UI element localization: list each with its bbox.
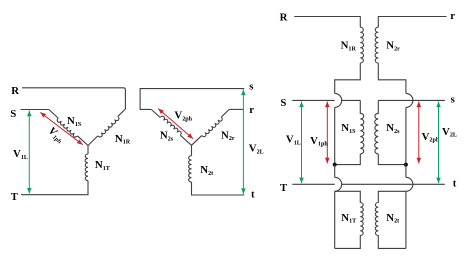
wire T line left (fig3): [292, 183, 334, 185]
hop right over s line (fig3): [406, 93, 413, 107]
label V1L (fig1): [13, 148, 28, 161]
winding N1R coil (fig1): [98, 116, 119, 137]
wire N2r bottom (fig3): [378, 63, 406, 93]
svg-text:V1L: V1L: [13, 148, 28, 161]
svg-text:S: S: [10, 108, 16, 120]
hop right over t line (fig3): [406, 177, 413, 191]
hop left over S line (fig3): [335, 93, 342, 107]
winding N2t coil (fig2): [189, 156, 192, 182]
label N2t (fig3): [386, 212, 399, 225]
svg-text:s: s: [451, 94, 455, 106]
junction dot left (fig3): [333, 163, 337, 167]
wire r line (fig3): [378, 17, 446, 28]
wire s line right (fig3): [378, 99, 445, 101]
svg-text:N2t: N2t: [200, 164, 213, 177]
svg-text:T: T: [11, 191, 19, 203]
wire R diagonal lower to node (fig1): [88, 136, 98, 146]
label V2L (fig3): [442, 126, 457, 139]
label T (fig1): [11, 191, 19, 203]
label t (fig3): [453, 178, 457, 190]
label t (fig2): [251, 188, 255, 200]
hop left over T line (fig3): [335, 177, 342, 191]
wire N2s bottom (fig3): [378, 154, 406, 165]
wire S line middle-left segment (fig3): [342, 99, 361, 101]
label S (fig1): [10, 108, 16, 120]
label N2s (fig2): [160, 130, 174, 143]
label V2ph (fig3): [422, 131, 440, 144]
wire N1R bottom (fig3): [335, 63, 361, 93]
wire t coil to t line (fig2): [192, 182, 245, 195]
svg-text:S: S: [280, 97, 286, 109]
label V2L (fig2): [249, 143, 264, 156]
svg-text:s: s: [249, 81, 253, 93]
svg-text:N1R: N1R: [115, 133, 131, 146]
winding N1R coil (fig3): [360, 27, 363, 63]
winding N2t rect right side (fig3): [405, 191, 407, 248]
svg-text:N2s: N2s: [386, 122, 400, 135]
svg-text:r: r: [450, 10, 455, 22]
wire S line (fig1): [21, 109, 49, 111]
svg-text:R: R: [280, 12, 288, 24]
svg-text:V2L: V2L: [249, 143, 264, 156]
junction dot right (fig3): [404, 163, 408, 167]
label N1R (fig1): [115, 133, 131, 146]
winding N1T coil (fig1): [85, 154, 88, 181]
wire R diagonal upper (fig1): [118, 109, 126, 116]
svg-text:N1R: N1R: [341, 40, 357, 53]
wire N1S bottom (fig3): [335, 154, 361, 165]
wire N2s right side (fig3): [405, 107, 407, 164]
label R (fig1): [11, 85, 19, 97]
wire T coil to T line (fig1): [21, 181, 88, 195]
label V1ph (fig3): [310, 135, 328, 148]
winding N2s coil (fig3): [375, 100, 379, 154]
wire R line (fig3): [294, 17, 360, 28]
winding N2r coil (fig2): [202, 117, 222, 137]
svg-text:R: R: [11, 85, 19, 97]
winding N1T rect left side (fig3): [334, 191, 336, 248]
label V1ph (fig1): [45, 125, 67, 146]
wire s diagonal lower to node (fig2): [180, 135, 191, 145]
svg-text:N1S: N1S: [67, 115, 82, 128]
wire node to T coil (fig1): [87, 146, 89, 155]
wire S diagonal lower to node (fig1): [78, 136, 88, 146]
label N2r (fig2): [221, 129, 235, 142]
svg-text:V2ph: V2ph: [174, 110, 192, 123]
label N1S (fig1): [67, 115, 82, 128]
label N2r (fig3): [386, 40, 400, 53]
svg-text:t: t: [251, 188, 255, 200]
svg-text:N1T: N1T: [95, 159, 110, 172]
wire S line left (fig3): [292, 99, 334, 101]
svg-text:N1S: N1S: [341, 122, 356, 135]
svg-text:N2r: N2r: [221, 129, 235, 142]
wire left dot to T hop (fig3): [334, 165, 336, 178]
label N1S (fig3): [341, 122, 356, 135]
label N2t (fig2): [200, 164, 213, 177]
label r (fig3): [450, 10, 455, 22]
winding N1S coil (fig1): [57, 118, 77, 137]
wire R line (fig1): [22, 88, 125, 109]
wire t line right (fig3): [413, 183, 445, 185]
arrow V2L (fig3): [436, 102, 441, 184]
label r (fig2): [249, 104, 254, 116]
wire N1S left side (fig3): [334, 107, 336, 164]
svg-text:N2r: N2r: [386, 40, 400, 53]
svg-text:t: t: [453, 178, 457, 190]
svg-text:N2t: N2t: [386, 212, 399, 225]
arrow V2L (fig2): [241, 90, 246, 195]
winding N2s coil (fig2): [160, 116, 181, 135]
winding N1T coil (fig3): [335, 191, 364, 248]
wire s top line (fig2): [140, 89, 244, 110]
wire s diagonal upper (fig2): [151, 109, 160, 117]
label V2ph (fig2): [174, 110, 192, 123]
winding N1S coil (fig3): [360, 100, 364, 154]
svg-text:V2L: V2L: [442, 126, 457, 139]
svg-text:N2s: N2s: [160, 130, 174, 143]
label S (fig3): [280, 97, 286, 109]
svg-text:V1ph: V1ph: [310, 135, 328, 148]
label T (fig3): [280, 182, 288, 194]
label N1T (fig3): [341, 212, 356, 225]
wire T line middle (fig3): [342, 183, 413, 185]
arrow V1ph (fig3): [325, 102, 330, 164]
label N1R (fig3): [341, 40, 357, 53]
svg-text:r: r: [249, 104, 254, 116]
arrow V2ph (fig3): [417, 102, 422, 164]
arrow V2ph (fig2): [158, 109, 193, 139]
label N1T (fig1): [95, 159, 110, 172]
winding N2t coil (fig3): [375, 191, 406, 248]
label V1L (fig3): [286, 134, 301, 147]
svg-text:V1L: V1L: [286, 134, 301, 147]
wire S diagonal upper (fig1): [49, 110, 58, 119]
label s (fig3): [451, 94, 455, 106]
wire right dot to t hop (fig3): [405, 165, 407, 178]
arrow V1L (fig1): [27, 111, 32, 194]
svg-text:N1T: N1T: [341, 212, 356, 225]
wire node to t coil (fig2): [191, 145, 193, 155]
arrow V1ph (fig1): [40, 112, 82, 144]
wire r diagonal lower to node (fig2): [192, 136, 202, 146]
arrow V1L (fig3): [299, 102, 304, 184]
svg-text:V2ph: V2ph: [422, 131, 440, 144]
label R (fig3): [280, 12, 288, 24]
label s (fig2): [249, 81, 253, 93]
wire r line (fig2): [229, 108, 243, 110]
wire r diagonal upper (fig2): [221, 109, 229, 117]
winding N2r coil (fig3): [375, 27, 378, 63]
svg-text:T: T: [280, 182, 288, 194]
label N2s (fig3): [386, 122, 400, 135]
